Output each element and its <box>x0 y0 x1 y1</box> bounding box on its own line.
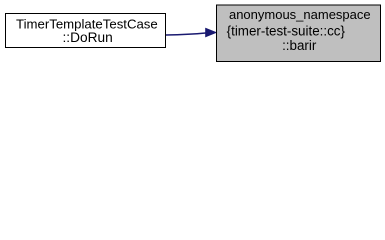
arrowhead <box>206 28 217 37</box>
svg-text:::DoRun: ::DoRun <box>62 30 112 45</box>
svg-text:anonymous_namespace: anonymous_namespace <box>229 7 371 22</box>
svg-text:{timer-test-suite::cc}: {timer-test-suite::cc} <box>227 24 346 39</box>
node TimerTemplateTestCase::DoRun (caller box) <box>6 14 166 48</box>
svg-text:::barir: ::barir <box>282 38 317 53</box>
node anonymous_namespace{timer-test-suite::cc}::barir (callee box) <box>217 5 381 62</box>
edge wire from DoRun to barir <box>166 33 206 35</box>
